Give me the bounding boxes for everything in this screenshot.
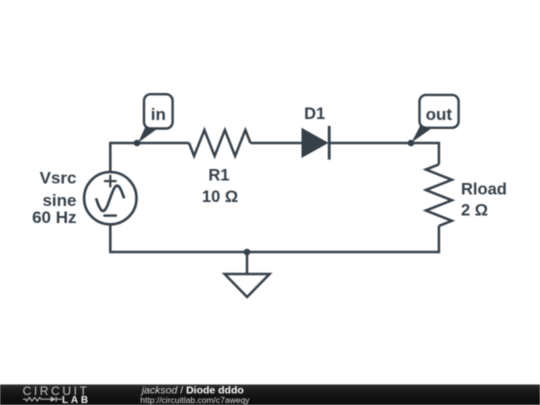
resistor R1 [189, 130, 251, 156]
svg-text:2 Ω: 2 Ω [461, 202, 488, 220]
svg-text:R1: R1 [208, 167, 229, 185]
node in junction dot [134, 140, 141, 147]
svg-text:D1: D1 [304, 105, 325, 123]
node out junction dot [408, 140, 415, 147]
footer logo symbol row [23, 397, 62, 402]
wire bottom loop: source bottom lead, bottom rail, Rload bottom lead [110, 225, 439, 253]
wire top-left corner: node in to source top lead [110, 143, 189, 172]
footer bar [0, 385, 540, 405]
svg-text:10 Ω: 10 Ω [202, 188, 238, 206]
svg-text:http://circuitlab.com/c7aweqy: http://circuitlab.com/c7aweqy [140, 395, 250, 405]
wire R1 to D1 [251, 142, 304, 145]
svg-text:LAB: LAB [62, 395, 91, 405]
ground junction dot [244, 249, 251, 256]
wire top-right corner: D1 to node out to Rload top lead [329, 143, 439, 164]
svg-text:Vsrc: Vsrc [40, 169, 77, 188]
svg-text:Rload: Rload [461, 180, 507, 198]
ground [225, 252, 270, 297]
resistor Rload [426, 164, 452, 226]
svg-text:60 Hz: 60 Hz [32, 208, 76, 227]
svg-text:in: in [151, 105, 166, 124]
svg-text:out: out [426, 105, 453, 124]
voltage source Vsrc [84, 172, 136, 224]
diode D1 [302, 126, 329, 160]
node flag in [138, 94, 173, 143]
node flag out [412, 95, 459, 143]
